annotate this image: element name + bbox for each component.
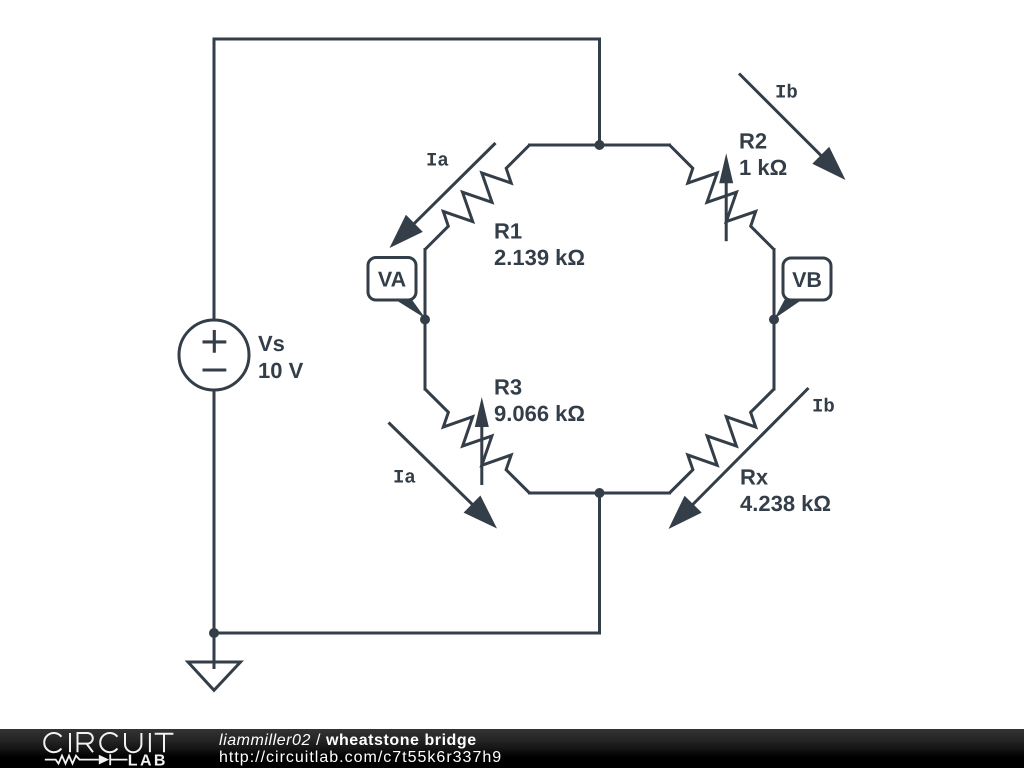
CircuitLab logo letter I <box>149 733 151 752</box>
wire left rail upper (Vs+ to top rail) <box>213 39 216 321</box>
CircuitLab logo letter U <box>125 733 141 752</box>
current arrow Ib (bottom-right) <box>690 388 808 507</box>
wire left vertical (VA branch) <box>424 250 427 390</box>
CircuitLab logo letter R <box>78 733 94 752</box>
node VA junction dot <box>420 315 430 325</box>
CircuitLab logo resistor-diode glyph <box>45 756 99 764</box>
current arrow Ib (top-right) <box>739 74 824 159</box>
node junction dot at bridge top <box>595 140 605 150</box>
node VB callout <box>775 297 807 319</box>
footer title line <box>219 731 477 750</box>
node junction dot at bridge bottom <box>595 488 605 498</box>
current arrow Ia (top-left) <box>412 143 496 226</box>
footer url line <box>219 748 502 767</box>
resistor R1 (top-left arm) <box>425 145 530 250</box>
svg-text:LAB: LAB <box>128 753 168 768</box>
CircuitLab logo letter C <box>44 733 61 752</box>
node VA callout <box>391 297 426 319</box>
voltage source Vs circle <box>179 320 249 390</box>
wiper arrow of R2 <box>725 179 728 241</box>
CircuitLab logo letter C <box>100 733 117 752</box>
ground symbol <box>213 633 216 669</box>
current arrow Ia (bottom-left) <box>389 423 475 507</box>
wire top rail from Vs to bridge top <box>214 39 600 145</box>
wire bridge bottom horizontal <box>530 492 670 495</box>
CircuitLab logo letter T <box>155 734 174 753</box>
node VB junction dot <box>769 315 779 325</box>
voltage source minus sign <box>203 368 227 371</box>
node junction dot at bottom-left rail <box>209 628 219 638</box>
resistor R3 (bottom-left arm, variable) <box>425 389 530 493</box>
resistor R2 (top-right arm, variable) <box>670 145 775 250</box>
wire bridge top horizontal <box>530 144 670 147</box>
wire bridge bottom stem <box>598 493 601 633</box>
wire left rail lower (Vs- to bottom rail) <box>213 390 216 634</box>
wiper arrow of R3 <box>480 423 483 485</box>
wire bottom rail <box>214 632 600 635</box>
resistor Rx (bottom-right arm) <box>670 389 775 493</box>
voltage source plus sign <box>203 330 227 353</box>
wire right vertical (VB branch) <box>773 250 776 390</box>
CircuitLab logo letter I <box>69 733 71 752</box>
